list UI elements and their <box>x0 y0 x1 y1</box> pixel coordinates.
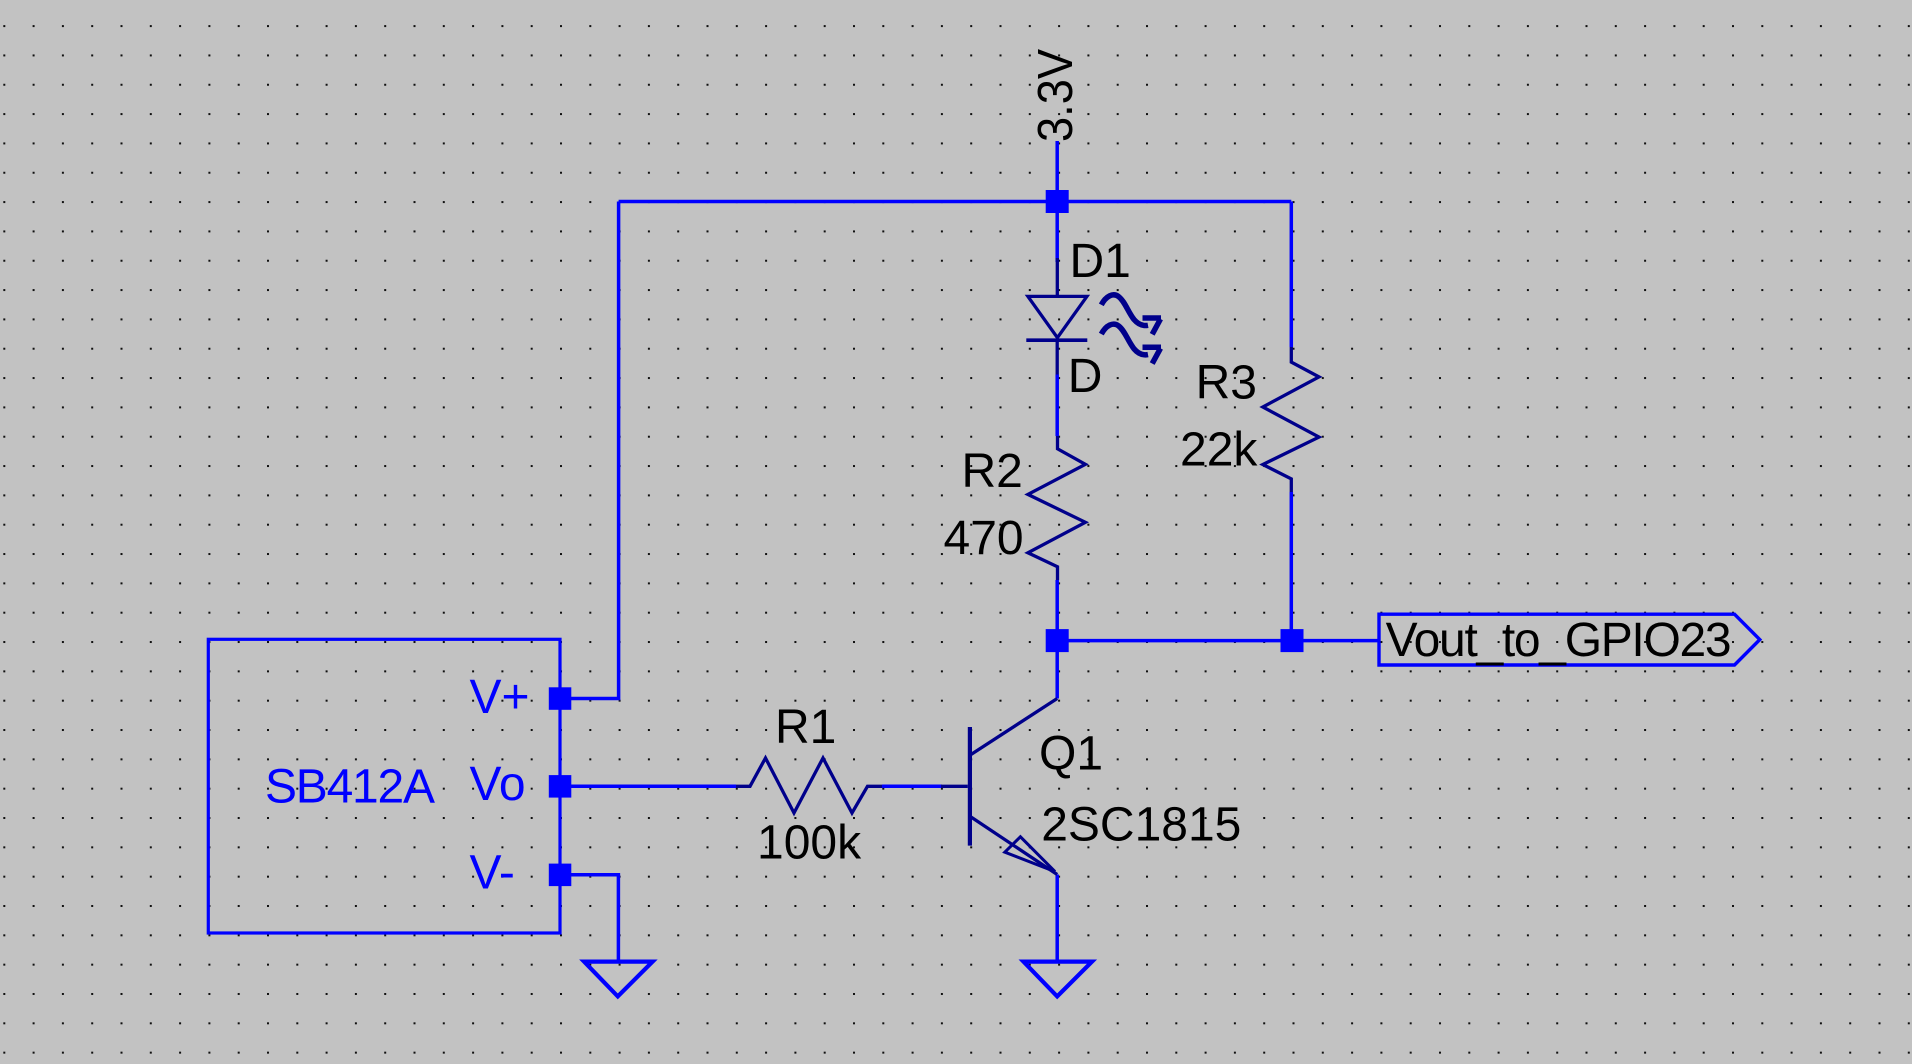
svg-text:Vout_to_GPIO23: Vout_to_GPIO23 <box>1386 614 1732 667</box>
svg-text:V-: V- <box>470 847 515 900</box>
svg-text:R3: R3 <box>1196 357 1257 410</box>
svg-text:R1: R1 <box>775 701 836 754</box>
svg-text:3.3V: 3.3V <box>1029 49 1083 142</box>
svg-text:22k: 22k <box>1180 424 1258 477</box>
svg-text:470: 470 <box>944 512 1024 565</box>
svg-text:Vo: Vo <box>470 758 526 811</box>
svg-text:Q1: Q1 <box>1039 728 1103 781</box>
svg-text:D: D <box>1068 350 1103 403</box>
svg-text:2SC1815: 2SC1815 <box>1041 799 1241 852</box>
svg-text:D1: D1 <box>1070 235 1131 288</box>
svg-text:100k: 100k <box>757 817 862 870</box>
svg-text:R2: R2 <box>962 445 1023 498</box>
svg-text:V+: V+ <box>470 671 530 724</box>
svg-text:SB412A: SB412A <box>265 761 435 814</box>
